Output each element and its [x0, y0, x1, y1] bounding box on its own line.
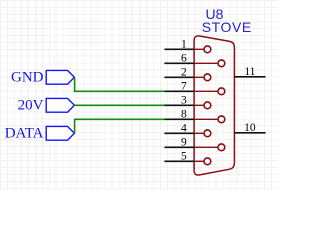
svg-text:3: 3	[181, 95, 187, 107]
pin 4	[164, 123, 210, 137]
svg-text:5: 5	[181, 151, 187, 163]
pin 5	[164, 151, 210, 165]
svg-text:DATA: DATA	[5, 126, 44, 142]
svg-text:11: 11	[244, 66, 255, 78]
pin 1	[164, 39, 210, 53]
pin 8	[164, 109, 224, 123]
svg-text:9: 9	[181, 137, 187, 149]
wire 20V to pin 3	[75, 104, 165, 106]
pin 3	[164, 95, 210, 109]
pin 9	[164, 137, 224, 151]
svg-text:GND: GND	[11, 70, 44, 86]
svg-text:20V: 20V	[18, 98, 44, 114]
wire DATA to pin 8	[75, 119, 165, 133]
pin 2	[164, 67, 210, 81]
svg-text:7: 7	[181, 81, 187, 93]
net label DATA	[5, 126, 75, 142]
wire GND to pin 7	[75, 78, 165, 91]
svg-text:2: 2	[181, 67, 187, 79]
pin 11	[234, 66, 265, 78]
pin 10	[234, 122, 265, 134]
svg-text:10: 10	[244, 122, 256, 134]
svg-text:8: 8	[181, 109, 187, 121]
svg-text:6: 6	[181, 53, 187, 65]
svg-text:4: 4	[181, 123, 187, 135]
pin 6	[164, 53, 224, 67]
connector U8 body	[194, 36, 234, 175]
net label GND	[11, 70, 74, 86]
svg-text:STOVE: STOVE	[202, 19, 252, 35]
pin 7	[164, 81, 224, 95]
svg-text:1: 1	[181, 39, 187, 51]
net label 20V	[18, 98, 75, 114]
